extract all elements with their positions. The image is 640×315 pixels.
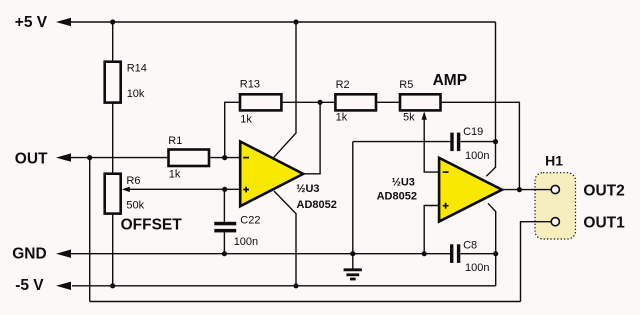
wire OUT line left (70, 157, 169, 159)
svg-text:C8: C8 (463, 239, 477, 251)
junction +5V / U3a supply (293, 19, 298, 24)
op-amp U3a (240, 142, 337, 211)
svg-text:100n: 100n (234, 236, 258, 248)
wire GND rail right of C8 (460, 253, 495, 255)
connector H1 (535, 153, 576, 240)
junction GND / U3b non-inverting input (422, 251, 427, 256)
pin OUT2 (551, 185, 559, 193)
svg-text:1k: 1k (240, 114, 252, 126)
wire R14 top (112, 22, 114, 62)
svg-text:OFFSET: OFFSET (121, 217, 183, 234)
svg-text:R5: R5 (399, 79, 413, 91)
junction C19 / U3b positive supply (493, 139, 498, 144)
resistor R14 (105, 62, 147, 103)
wire R6 bottom to -5V (112, 214, 114, 286)
wire C22 bottom (223, 232, 225, 253)
svg-text:C19: C19 (463, 126, 483, 138)
wire R6 wiper to U3a non-inverting input (124, 188, 240, 190)
wire ground drop (352, 142, 354, 254)
junction U3a non-inverting input / C22 (222, 187, 227, 192)
junction OUT / OUT1 branch (87, 155, 92, 160)
svg-text:100n: 100n (465, 150, 489, 162)
wire R13 to R2 (281, 101, 335, 103)
resistor R13 (240, 79, 282, 126)
wire U3b output to OUT2 pin (502, 189, 551, 191)
wire R2 to R5 (376, 101, 400, 103)
svg-text:AD8052: AD8052 (377, 191, 417, 203)
wire U3b non-inverting input to GND (424, 206, 439, 254)
junction C8 / U3b negative supply (493, 251, 498, 256)
wire +5V rail (70, 21, 496, 23)
svg-text:AD8052: AD8052 (297, 199, 337, 211)
svg-text:10k: 10k (127, 88, 145, 100)
svg-text:R1: R1 (168, 135, 182, 147)
ground (344, 254, 362, 279)
svg-text:AMP: AMP (433, 72, 467, 89)
svg-text:OUT2: OUT2 (583, 182, 624, 199)
connector arrow +5V (56, 18, 71, 26)
wire OUT line right (209, 157, 240, 159)
junction -5V / U3a supply (293, 283, 298, 288)
capacitor C8 (450, 239, 489, 273)
wire U3b +5V supply stub (486, 22, 495, 176)
junction U3a output / R13 / R2 (318, 100, 323, 105)
wire bottom run (90, 301, 521, 303)
svg-text:R13: R13 (240, 79, 260, 91)
svg-text:GND: GND (12, 246, 46, 263)
svg-text:-5 V: -5 V (15, 277, 44, 294)
junction GND / ground symbol (350, 251, 355, 256)
wire U3a -5V supply stub (274, 191, 296, 286)
junction GND / C22 (222, 251, 227, 256)
svg-text:H1: H1 (545, 153, 563, 169)
capacitor C19 (450, 126, 489, 162)
connector arrow OUT (56, 153, 71, 161)
resistor R2 (335, 79, 376, 124)
connector arrow GND (56, 250, 71, 258)
wire -5V rail (72, 285, 496, 287)
svg-text:OUT1: OUT1 (583, 215, 625, 232)
junction +5V / R14 (110, 19, 115, 24)
svg-text:½U3: ½U3 (392, 176, 415, 188)
svg-text:100n: 100n (465, 262, 489, 274)
svg-text:OUT: OUT (15, 151, 48, 168)
wire OUT down left vertical (89, 158, 91, 302)
svg-text:R6: R6 (126, 175, 140, 187)
resistor R1 (168, 135, 209, 181)
wire R13 left to U3a inverting input (225, 102, 240, 157)
svg-text:C22: C22 (240, 215, 260, 227)
wire R14 to R6 (112, 103, 114, 174)
potentiometer R5 (399, 79, 440, 124)
wire C19 right (460, 141, 495, 143)
junction U3a inverting input / R13 (222, 155, 227, 160)
svg-text:R2: R2 (336, 79, 350, 91)
junction -5V / R6 (110, 283, 115, 288)
capacitor C22 (214, 215, 260, 248)
svg-text:1k: 1k (169, 169, 181, 181)
junction U3b output / R5 feedback (517, 187, 522, 192)
svg-text:R14: R14 (127, 63, 147, 75)
svg-text:+5 V: +5 V (15, 14, 48, 31)
svg-text:50k: 50k (126, 199, 144, 211)
wire R5 right feedback (441, 102, 520, 189)
svg-text:1k: 1k (336, 112, 348, 124)
pin OUT1 (551, 218, 559, 226)
wire C22 top (223, 189, 225, 222)
wire U3a +5V supply stub (273, 22, 296, 158)
wire R5 wiper to U3b inverting input (424, 113, 439, 172)
potentiometer R6 (105, 174, 145, 214)
wire C19 left (353, 141, 451, 143)
wire to OUT1 pin (521, 222, 552, 302)
wire GND rail left (70, 253, 450, 255)
op-amp U3b (377, 158, 502, 222)
svg-text:½U3: ½U3 (296, 183, 319, 195)
svg-text:5k: 5k (403, 112, 415, 124)
wire U3b -5V supply stub (488, 203, 496, 285)
wire op-amp U3a output (303, 102, 320, 174)
connector arrow -5V (56, 282, 71, 290)
